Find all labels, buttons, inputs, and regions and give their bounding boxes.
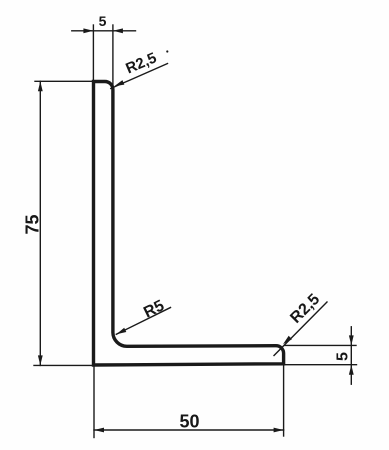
- svg-text:75: 75: [23, 214, 43, 234]
- arrow 50 right: [274, 428, 284, 433]
- svg-text:R2,5: R2,5: [123, 49, 159, 77]
- arrow 75 bottom: [38, 355, 43, 365]
- extension line: 75 top: [35, 80, 94, 82]
- arrow leader R2,5 bottom-right: [281, 336, 292, 346]
- arrow 75 top: [38, 81, 43, 91]
- arrow leader R2,5 top: [113, 80, 124, 88]
- arrow right-5 top: [349, 335, 354, 345]
- dimension line: right 5: [350, 327, 352, 384]
- extension line: right-5 bottom: [285, 364, 357, 366]
- svg-text:R5: R5: [141, 297, 167, 321]
- svg-text:R2,5: R2,5: [287, 291, 323, 327]
- dimension line: 75: [39, 81, 41, 365]
- extension line: 50 right: [283, 362, 285, 436]
- leader R2,5 top: [111, 64, 168, 89]
- svg-text:5: 5: [335, 352, 352, 361]
- arrow top-5 left: [83, 28, 93, 33]
- extension line: top-5 left: [92, 25, 94, 81]
- L-profile outline: [94, 81, 284, 365]
- arrow 50 left: [94, 428, 104, 433]
- extension line: top-5 right: [112, 25, 114, 87]
- svg-text:50: 50: [179, 412, 199, 432]
- svg-text:5: 5: [99, 13, 107, 29]
- dimension line: 50: [94, 429, 284, 431]
- dimension line: top 5: [72, 30, 136, 32]
- arrow top-5 right: [113, 28, 123, 33]
- dot after R2,5: [166, 50, 168, 52]
- extension line: 75 bottom: [34, 364, 94, 366]
- extension line: right-5 top: [285, 344, 357, 346]
- leader R5: [116, 308, 170, 335]
- extension line: 50 left: [93, 366, 95, 438]
- leader R2,5 bottom-right: [274, 302, 327, 356]
- arrow right-5 bottom: [349, 365, 354, 375]
- arrow leader R5: [115, 328, 126, 337]
